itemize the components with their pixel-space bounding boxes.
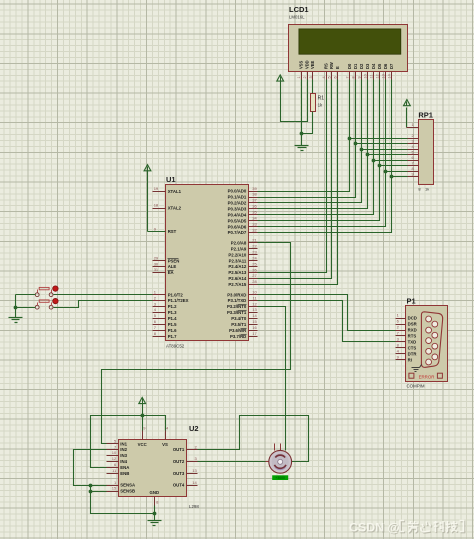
svg-text:14: 14 xyxy=(192,480,197,485)
svg-text:CSDN @: CSDN @ xyxy=(349,521,400,535)
svg-text:DSR: DSR xyxy=(408,322,418,327)
svg-text:P0.3/AD3: P0.3/AD3 xyxy=(228,206,247,211)
svg-text:RST: RST xyxy=(168,229,177,234)
svg-text:P1.3: P1.3 xyxy=(168,310,177,315)
svg-text:P0.1/AD1: P0.1/AD1 xyxy=(228,195,247,200)
svg-text:25: 25 xyxy=(252,261,257,266)
svg-text:P2.2/A10: P2.2/A10 xyxy=(228,252,247,257)
svg-text:RS: RS xyxy=(324,63,329,69)
svg-text:P2.3/A11: P2.3/A11 xyxy=(229,258,247,263)
svg-text:D6: D6 xyxy=(383,63,388,69)
svg-text:VSS: VSS xyxy=(299,61,304,69)
svg-text:U2: U2 xyxy=(189,424,199,433)
svg-text:12: 12 xyxy=(376,74,380,78)
svg-text:P1.5: P1.5 xyxy=(168,322,177,327)
svg-text:ENA: ENA xyxy=(120,465,129,470)
svg-text:SENSB: SENSB xyxy=(120,489,135,494)
svg-text:5: 5 xyxy=(328,76,332,78)
svg-text:ALE: ALE xyxy=(168,264,177,269)
svg-text:12: 12 xyxy=(112,456,117,461)
svg-text:23: 23 xyxy=(252,249,257,254)
svg-text:P2.0/A8: P2.0/A8 xyxy=(231,241,247,246)
svg-text:OUT2: OUT2 xyxy=(173,459,185,464)
svg-text:RXD: RXD xyxy=(408,328,417,333)
svg-text:D3: D3 xyxy=(365,63,370,69)
svg-text:IN4: IN4 xyxy=(120,459,127,464)
svg-text:OUT4: OUT4 xyxy=(173,483,185,488)
svg-text:P2.7/A15: P2.7/A15 xyxy=(228,282,247,287)
svg-text:ENB: ENB xyxy=(120,471,129,476)
svg-text:L298: L298 xyxy=(189,504,199,509)
svg-text:14: 14 xyxy=(388,74,392,78)
svg-text:21: 21 xyxy=(252,238,257,243)
svg-text:P1.0/T2: P1.0/T2 xyxy=(168,292,184,297)
svg-text:D5: D5 xyxy=(377,63,382,69)
svg-text:34: 34 xyxy=(252,215,257,220)
svg-text:DTR: DTR xyxy=(408,352,418,357)
svg-text:P3.5/T1: P3.5/T1 xyxy=(231,322,247,327)
svg-text:P3.1/TXD: P3.1/TXD xyxy=(228,298,247,303)
svg-text:ERROR: ERROR xyxy=(419,374,435,379)
svg-text:29: 29 xyxy=(154,255,159,260)
svg-text:RTS: RTS xyxy=(408,334,417,339)
svg-text:COMPIM: COMPIM xyxy=(407,384,425,389)
svg-text:1k: 1k xyxy=(318,103,323,108)
svg-text:22: 22 xyxy=(252,244,257,249)
svg-text:38: 38 xyxy=(252,192,257,197)
svg-text:P1.7: P1.7 xyxy=(168,334,177,339)
svg-text:+3000: +3000 xyxy=(275,476,285,480)
svg-text:6: 6 xyxy=(334,76,338,78)
svg-text:P0.2/AD2: P0.2/AD2 xyxy=(228,201,247,206)
svg-text:VEE: VEE xyxy=(310,61,315,69)
svg-text:IN2: IN2 xyxy=(120,447,127,452)
svg-text:VCC: VCC xyxy=(138,442,147,447)
svg-text:P2.4/A12: P2.4/A12 xyxy=(228,264,247,269)
svg-text:26: 26 xyxy=(252,267,257,272)
svg-text:19: 19 xyxy=(154,186,159,191)
svg-text:3: 3 xyxy=(309,76,313,78)
svg-text:IN1: IN1 xyxy=(120,441,127,446)
svg-text:36: 36 xyxy=(252,204,257,209)
svg-text:13: 13 xyxy=(382,74,386,78)
svg-text:RP1: RP1 xyxy=(418,111,433,120)
svg-text:CTS: CTS xyxy=(408,346,417,351)
svg-text:8: 8 xyxy=(351,76,355,78)
svg-text:P1: P1 xyxy=(407,297,416,306)
svg-text:9: 9 xyxy=(358,76,362,78)
svg-text:12: 12 xyxy=(252,301,257,306)
svg-text:30: 30 xyxy=(154,261,159,266)
svg-text:RW: RW xyxy=(329,62,334,69)
svg-text:P0.7/AD7: P0.7/AD7 xyxy=(228,230,247,235)
svg-text:28: 28 xyxy=(252,279,257,284)
svg-text:1k: 1k xyxy=(425,187,429,192)
svg-text:P1.6: P1.6 xyxy=(168,328,177,333)
svg-text:PSEN: PSEN xyxy=(168,258,180,263)
svg-text:AT89C52: AT89C52 xyxy=(166,344,185,349)
svg-text:P0.6/AD6: P0.6/AD6 xyxy=(228,224,247,229)
svg-text:2: 2 xyxy=(303,76,307,78)
svg-text:XTAL2: XTAL2 xyxy=(168,206,182,211)
svg-text:32: 32 xyxy=(252,227,257,232)
svg-text:OUT1: OUT1 xyxy=(173,447,185,452)
svg-text:P3.2/INT0: P3.2/INT0 xyxy=(227,304,247,309)
svg-text:R1: R1 xyxy=(318,96,325,102)
svg-text:35: 35 xyxy=(252,210,257,215)
svg-text:P2.6/A14: P2.6/A14 xyxy=(228,276,247,281)
svg-text:P3.0/RXD: P3.0/RXD xyxy=(227,292,246,297)
svg-text:P0.0/AD0: P0.0/AD0 xyxy=(228,189,247,194)
svg-text:P3.3/INT1: P3.3/INT1 xyxy=(227,310,247,315)
svg-text:4: 4 xyxy=(322,76,326,78)
svg-text:VDD: VDD xyxy=(304,60,309,69)
svg-text:P2.1/A9: P2.1/A9 xyxy=(231,246,247,251)
svg-text:P1.4: P1.4 xyxy=(168,316,177,321)
svg-text:VS: VS xyxy=(162,442,168,447)
svg-text:OUT3: OUT3 xyxy=(173,471,185,476)
svg-text:D4: D4 xyxy=(371,63,376,69)
svg-text:EA: EA xyxy=(168,270,174,275)
svg-text:27: 27 xyxy=(252,273,257,278)
svg-text:37: 37 xyxy=(252,198,257,203)
svg-text:P0.5/AD5: P0.5/AD5 xyxy=(228,218,247,223)
svg-text:U1: U1 xyxy=(166,175,176,184)
svg-text:10: 10 xyxy=(112,450,117,455)
svg-text:18: 18 xyxy=(154,203,159,208)
svg-text:13: 13 xyxy=(192,468,197,473)
svg-text:RI: RI xyxy=(408,357,412,362)
svg-text:P0.4/AD4: P0.4/AD4 xyxy=(228,212,247,217)
svg-text:LM016L: LM016L xyxy=(289,15,305,20)
svg-text:15: 15 xyxy=(252,319,257,324)
svg-text:P1.2: P1.2 xyxy=(168,304,177,309)
svg-text:17: 17 xyxy=(252,331,257,336)
svg-text:24: 24 xyxy=(252,255,257,260)
svg-text:IN3: IN3 xyxy=(120,453,127,458)
svg-text:D0: D0 xyxy=(347,63,352,69)
svg-text:1: 1 xyxy=(297,76,301,78)
svg-text:14: 14 xyxy=(252,313,257,318)
svg-text:DCD: DCD xyxy=(408,316,417,321)
svg-text:P3.4/T0: P3.4/T0 xyxy=(231,316,247,321)
svg-text:11: 11 xyxy=(370,75,374,79)
svg-text:P2.5/A13: P2.5/A13 xyxy=(228,270,247,275)
svg-text:13: 13 xyxy=(252,307,257,312)
svg-text:39: 39 xyxy=(252,186,257,191)
svg-text:GND: GND xyxy=(150,490,160,495)
svg-text:33: 33 xyxy=(252,221,257,226)
svg-text:31: 31 xyxy=(154,267,159,272)
svg-text:D2: D2 xyxy=(359,63,364,69)
svg-text:7: 7 xyxy=(345,76,349,78)
svg-text:XTAL1: XTAL1 xyxy=(168,189,182,194)
svg-text:16: 16 xyxy=(252,325,257,330)
svg-text:P1.1/T2EX: P1.1/T2EX xyxy=(168,298,189,303)
svg-text:E: E xyxy=(335,66,340,69)
svg-text:D1: D1 xyxy=(353,63,358,69)
svg-text:10: 10 xyxy=(252,289,257,294)
svg-text:15: 15 xyxy=(112,486,117,491)
svg-text:10: 10 xyxy=(364,74,368,78)
svg-text:SENSA: SENSA xyxy=(120,483,135,488)
svg-text:TXD: TXD xyxy=(408,340,417,345)
svg-text:D7: D7 xyxy=(389,63,394,69)
svg-text:LCD1: LCD1 xyxy=(289,5,309,14)
